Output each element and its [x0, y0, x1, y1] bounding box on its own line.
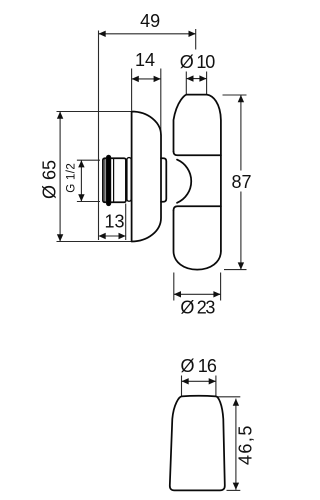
dim Ø65 line	[59, 112, 61, 242]
dim 46,5 line	[235, 399, 237, 490]
dim 49 extension line left (long, passes nipple)	[98, 31, 100, 241]
arrowhead Ø16 right	[209, 378, 216, 384]
dim 14 extension line right	[160, 69, 162, 136]
dim Ø16 extension line right	[215, 376, 217, 396]
arrowhead Ø65 bottom	[57, 234, 63, 241]
body divider line top	[174, 152, 221, 156]
svg-text:46,5: 46,5	[236, 426, 256, 466]
arrowhead 14 left	[132, 76, 139, 82]
arrowhead 49 right	[189, 31, 196, 37]
arrowhead G1/2 top	[78, 160, 84, 167]
dim G1/2 extension line bottom	[77, 201, 100, 203]
dim 49 extension line right	[195, 29, 197, 50]
dim 13 line	[99, 235, 126, 237]
svg-text:49: 49	[140, 11, 160, 31]
svg-text:Ø 23: Ø 23	[180, 297, 215, 317]
arrowhead 49 left	[99, 31, 106, 37]
arrowhead 14 right	[154, 76, 161, 82]
svg-text:87: 87	[231, 172, 251, 192]
threaded nipple outer rectangle	[103, 158, 126, 202]
dim 49 line	[99, 33, 196, 35]
ball arc inside body	[177, 160, 191, 203]
nipple collar (dark capsule)	[107, 155, 111, 205]
svg-text:14: 14	[135, 50, 155, 70]
dim G1/2 line	[80, 160, 82, 201]
dim G1/2 extension line top	[77, 159, 100, 161]
svg-text:G 1/2: G 1/2	[66, 163, 78, 193]
dim Ø65 extension line top	[57, 111, 132, 113]
arrowhead Ø10 right	[199, 75, 206, 81]
dim 13 extension line right	[125, 204, 127, 241]
body divider line bottom	[174, 206, 221, 210]
dim Ø23 extension line right	[220, 273, 222, 301]
cap outline (bottom view)	[170, 396, 225, 491]
dim Ø65 extension line bottom	[57, 241, 132, 243]
arrowhead Ø65 top	[57, 112, 63, 119]
dim Ø10 line	[186, 78, 206, 80]
dim 87 extension line top	[223, 94, 247, 96]
dim Ø16 line	[182, 380, 216, 382]
flange outline (wall rosette, Ø65)	[132, 112, 161, 242]
arrowhead 46,5 top	[233, 399, 239, 406]
svg-text:13: 13	[104, 211, 124, 231]
svg-text:Ø 16: Ø 16	[180, 356, 217, 376]
body lower outline (U bottom)	[174, 210, 221, 269]
arrowhead 46,5 bottom	[233, 483, 239, 490]
nipple inner line left	[104, 158, 106, 202]
dim Ø23 extension line left	[173, 273, 175, 301]
nipple inner line mid1	[113, 158, 115, 202]
arrowhead Ø16 left	[182, 378, 189, 384]
arrowhead G1/2 bottom	[78, 194, 84, 201]
body upper outline (dome and sides)	[174, 95, 221, 251]
dim 87 line lower segment	[240, 192, 242, 270]
arrowhead Ø10 left	[186, 75, 193, 81]
arrowhead 13 left	[99, 233, 106, 239]
arrowhead 87 bottom	[238, 262, 244, 269]
dim Ø16 extension line left	[181, 376, 183, 396]
dim 87 line upper segment	[240, 95, 242, 171]
dim 14 extension line left	[131, 69, 133, 111]
arrowhead Ø23 left	[174, 291, 181, 297]
dim Ø10 extension line left	[185, 72, 187, 95]
dim 46,5 extension line bottom	[227, 489, 241, 491]
washer ring between nipple and flange	[127, 158, 131, 202]
dim Ø23 line	[174, 293, 221, 295]
dim 14 line	[132, 78, 161, 80]
dim 46,5 extension line top	[217, 396, 240, 398]
arrowhead Ø23 right	[213, 291, 220, 297]
svg-text:Ø 65: Ø 65	[40, 160, 60, 199]
dim 87 extension line bottom	[224, 269, 247, 271]
svg-text:Ø 10: Ø 10	[180, 52, 216, 72]
arrowhead 13 right	[119, 233, 126, 239]
arrowhead 87 top	[238, 95, 244, 102]
neck step between flange and body	[161, 158, 166, 202]
dim Ø10 extension line right	[206, 72, 208, 95]
